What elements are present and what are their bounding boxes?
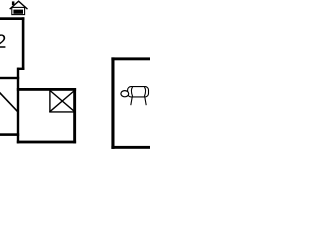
X-box bottom edge: [49, 111, 75, 113]
X-box diagonal 2: [50, 91, 74, 111]
wall: annex bottom: [111, 146, 150, 149]
wall: room2 top: [0, 17, 24, 20]
sofa inner arm curve right: [144, 87, 145, 96]
sofa body (rounded rectangle): [128, 87, 149, 97]
X-box diagonal 1: [50, 91, 74, 111]
sofa rear leg: [145, 97, 146, 105]
wall: big room right: [73, 88, 76, 143]
diagonal line (sloped wall / stair): [0, 92, 18, 111]
wall: lower-left room bottom (interior, to canvas left edge): [0, 133, 19, 136]
wall: jog between upper and lower right walls: [17, 68, 24, 70]
wall: big room top: [17, 88, 76, 91]
sofa front leg: [131, 97, 132, 105]
sofa bolster (left ellipse): [121, 91, 129, 97]
house icon (ground-floor symbol) roof: [10, 1, 28, 9]
floor plan canvas: [0, 0, 150, 150]
wall: big room bottom: [17, 141, 76, 144]
house icon chimney: [12, 1, 15, 5]
wall: annex left: [111, 57, 114, 148]
house icon body: [12, 7, 25, 14]
wall: room2 bottom (interior, to canvas left edge): [0, 77, 19, 79]
wall: left-building spine (lower right wall): [17, 68, 19, 144]
X-box (crossed square, storage) left edge: [49, 89, 51, 112]
room 2 label (digit glyph as path, Liberation Sans "two" at 19px): [0, 34, 5, 47]
wall: annex top: [111, 57, 150, 60]
wall: room2 right upper: [22, 17, 25, 70]
sofa inner arm curve left: [131, 87, 132, 96]
house icon door (filled): [13, 10, 23, 14]
